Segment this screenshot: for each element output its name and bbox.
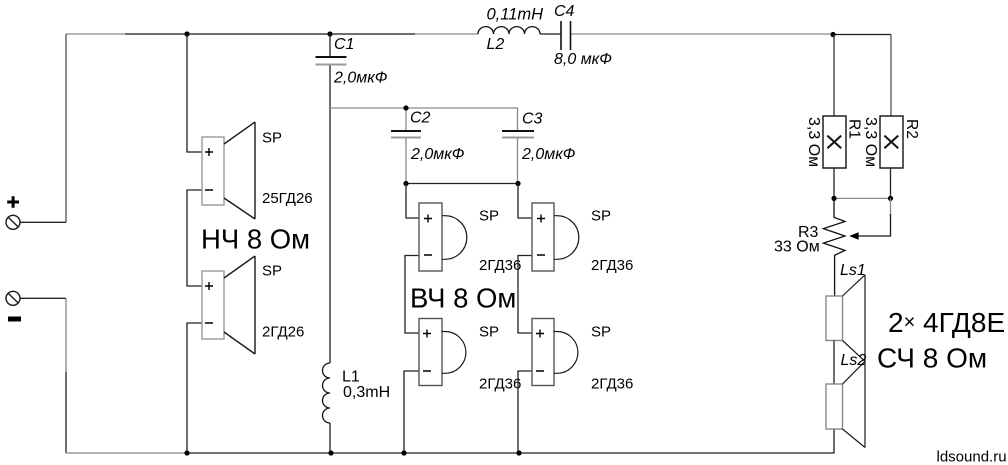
svg-text:2ГД36: 2ГД36 <box>479 257 521 274</box>
svg-text:33 Ом: 33 Ом <box>774 239 820 256</box>
svg-text:SP: SP <box>262 130 282 147</box>
node bottom x404 <box>401 450 406 455</box>
plus sign <box>7 196 19 208</box>
svg-text:Ls1: Ls1 <box>840 262 866 279</box>
wire top bus dark segments <box>125 33 891 36</box>
wire bottom bus y453 <box>66 452 187 454</box>
wire R bottom bus <box>834 197 891 199</box>
tweeter T3 <box>532 203 579 271</box>
svg-text:25ГД26: 25ГД26 <box>262 190 313 207</box>
speaker Ls1 <box>826 275 865 362</box>
capacitor C2 <box>391 108 421 184</box>
svg-text:C4: C4 <box>554 3 575 20</box>
svg-text:R2: R2 <box>903 119 920 139</box>
minus sign <box>8 317 21 322</box>
svg-text:8,0 мкФ: 8,0 мкФ <box>554 51 612 68</box>
svg-text:0,11mH: 0,11mH <box>487 6 544 24</box>
wire mid vertical x330 <box>329 108 331 453</box>
wire LF branch <box>187 34 202 453</box>
speaker Ls2 <box>826 361 865 447</box>
node junction top x330 <box>327 31 332 36</box>
node junction top x187 <box>184 31 189 36</box>
tweeter T2 <box>419 319 466 386</box>
node C2 bottom <box>403 181 408 186</box>
capacitor C4 <box>561 21 571 50</box>
terminal minus input <box>6 291 20 305</box>
node bottom x187 <box>184 450 189 455</box>
svg-text:2,0мкФ: 2,0мкФ <box>410 146 465 163</box>
svg-text:2,0мкФ: 2,0мкФ <box>521 146 576 163</box>
svg-text:L2: L2 <box>487 36 505 53</box>
wire R2 bottom lead <box>890 168 892 198</box>
svg-text:2ГД36: 2ГД36 <box>479 376 521 393</box>
svg-text:НЧ 8 Ом: НЧ 8 Ом <box>201 223 310 254</box>
wire R2 top lead <box>890 35 892 117</box>
svg-text:СЧ 8 Ом: СЧ 8 Ом <box>877 342 987 373</box>
svg-text:SP: SP <box>479 208 499 225</box>
wire minus lead <box>20 297 66 299</box>
node bottom x519 <box>516 450 521 455</box>
node C2 top <box>403 105 408 110</box>
node R1 bottom <box>831 196 836 201</box>
svg-text:ldsound.ru: ldsound.ru <box>937 449 1007 465</box>
svg-text:2,0мкФ: 2,0мкФ <box>333 70 388 87</box>
svg-text:SP: SP <box>479 324 499 341</box>
svg-text:2ГД36: 2ГД36 <box>591 257 633 274</box>
speaker SP2 2GD26 <box>202 256 255 354</box>
svg-text:3,3 Ом: 3,3 Ом <box>862 117 879 167</box>
wiper arrowhead <box>849 232 858 240</box>
wire R1 top lead <box>833 35 835 116</box>
wire Ls1-Ls2 <box>833 341 835 385</box>
resistor R1 <box>823 116 846 168</box>
svg-text:Ls2: Ls2 <box>841 352 867 369</box>
svg-text:0,3mH: 0,3mH <box>343 384 390 401</box>
resistor R2 <box>880 116 903 168</box>
svg-text:2ГД36: 2ГД36 <box>591 376 633 393</box>
resistor R3 potentiometer <box>823 198 845 296</box>
svg-text:3,3 Ом: 3,3 Ом <box>805 117 822 167</box>
svg-text:C1: C1 <box>334 36 354 53</box>
inductor L1 <box>323 363 330 423</box>
svg-text:L1: L1 <box>342 369 360 386</box>
node junction top x833 <box>830 32 835 37</box>
capacitor C3 <box>502 131 534 184</box>
wire tweeter chain right <box>518 184 532 454</box>
capacitor C1 <box>316 34 347 108</box>
terminal plus input <box>6 215 20 229</box>
svg-text:ВЧ 8 Ом: ВЧ 8 Ом <box>410 283 516 314</box>
wire tweeter chain left <box>404 184 419 454</box>
tweeter T1 <box>419 203 467 271</box>
speaker SP1 25GD26 <box>202 122 255 219</box>
svg-text:SP: SP <box>262 263 282 280</box>
svg-text:SP: SP <box>591 324 611 341</box>
wire top bus y34 <box>66 33 833 35</box>
wire tweeter bus y183.5 <box>406 183 518 185</box>
svg-text:2ГД26: 2ГД26 <box>262 324 304 341</box>
svg-text:SP: SP <box>591 208 611 225</box>
node C3 bottom <box>515 181 520 186</box>
wire plus lead <box>20 221 66 223</box>
inductor L2 <box>478 27 540 34</box>
wire mid bus y108 <box>330 108 518 131</box>
svg-text:C3: C3 <box>522 111 543 128</box>
wire R3 wiper <box>890 198 892 215</box>
node R2 bottom <box>888 196 893 201</box>
wire R1 bottom lead <box>833 168 835 198</box>
svg-text:C2: C2 <box>410 110 431 127</box>
tweeter T4 <box>532 319 578 386</box>
svg-text:R1: R1 <box>846 119 863 139</box>
node bottom x331 <box>328 450 333 455</box>
svg-text:2× 4ГД8Е: 2× 4ГД8Е <box>888 307 1005 338</box>
